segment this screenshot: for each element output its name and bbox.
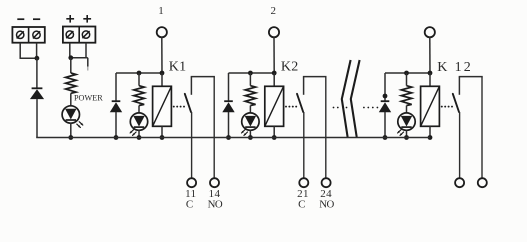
svg-text:NO: NO — [208, 198, 223, 210]
wire — [213, 77, 215, 179]
contact armature K1 — [185, 94, 191, 112]
junction — [428, 71, 433, 76]
junction — [428, 135, 433, 140]
wire — [249, 73, 251, 86]
wire — [138, 130, 140, 137]
junction — [137, 135, 142, 140]
wire — [384, 112, 386, 138]
wire — [69, 57, 88, 59]
dotted continuation line — [333, 107, 379, 109]
wire — [273, 73, 275, 86]
terminal NO K1 — [210, 178, 219, 187]
wire (stub) — [87, 58, 89, 71]
resistor R-K1 — [134, 86, 144, 106]
label pin 21 — [297, 188, 309, 200]
wire — [20, 57, 37, 59]
terminal NO K2 — [322, 178, 331, 187]
terminal C K2 — [299, 178, 308, 187]
wire — [429, 37, 431, 73]
input terminal K2 — [269, 27, 279, 37]
input terminal K1 — [157, 27, 167, 37]
wire — [191, 76, 215, 78]
svg-text:C: C — [186, 198, 193, 210]
diode D-K1 — [110, 101, 122, 112]
terminal NO K12 — [478, 178, 487, 187]
wire — [429, 126, 431, 137]
terminal block J1 (- -) — [12, 27, 44, 43]
terminal C K1 — [187, 178, 196, 187]
wire — [36, 43, 38, 59]
label pin 14 — [209, 188, 221, 200]
junction — [68, 55, 73, 60]
svg-text:K 12: K 12 — [437, 60, 473, 75]
input terminal K12 — [425, 27, 435, 37]
wire — [161, 73, 163, 86]
wire — [191, 112, 193, 178]
wire — [249, 106, 251, 114]
label K2 — [281, 59, 299, 74]
junction — [404, 135, 409, 140]
terminal block J2 (+ +) — [63, 27, 96, 43]
wire — [459, 112, 461, 178]
junction — [160, 71, 165, 76]
resistor R-K12 — [401, 86, 411, 106]
label input 1 — [158, 5, 164, 17]
wire — [138, 106, 140, 114]
wire — [273, 126, 275, 137]
node K12 rail wire — [385, 72, 430, 74]
mechanical link K12 (dotted) — [441, 106, 453, 108]
resistor R13 — [66, 73, 76, 93]
label C — [298, 198, 305, 210]
contact armature K12 — [453, 94, 459, 112]
wire — [228, 73, 230, 101]
junction — [272, 71, 277, 76]
junction — [248, 71, 253, 76]
wire — [325, 77, 327, 179]
wire — [406, 106, 408, 114]
junction — [137, 71, 142, 76]
wire — [36, 99, 38, 137]
wire (NO fixed contact) — [190, 77, 192, 95]
label pin 24 — [320, 188, 332, 200]
wire — [70, 93, 72, 106]
wire — [228, 112, 230, 138]
svg-text:K2: K2 — [281, 59, 299, 74]
wire (NO fixed contact) — [303, 77, 305, 95]
wire — [303, 76, 327, 78]
relay coil K1 — [153, 86, 172, 126]
bus wire (common) — [36, 137, 430, 139]
svg-text:C: C — [298, 198, 305, 210]
label K12 — [437, 60, 473, 75]
LED-K1 — [130, 113, 148, 135]
junction — [226, 135, 231, 140]
junction — [114, 135, 119, 140]
node K2 rail wire — [229, 72, 275, 74]
node K1 rail wire — [116, 72, 162, 74]
mechanical link K1 (dotted) — [173, 106, 185, 108]
wire — [115, 112, 117, 138]
svg-text:2: 2 — [270, 5, 276, 17]
svg-text:POWER: POWER — [74, 93, 103, 102]
diode D-K12 — [379, 101, 391, 112]
svg-text:K1: K1 — [169, 59, 187, 74]
label NO — [319, 198, 334, 210]
break mark (continuation) — [342, 60, 360, 137]
wire — [406, 73, 408, 86]
wire — [115, 73, 117, 101]
mechanical link K2 (dotted) — [285, 106, 297, 108]
wire — [36, 58, 38, 88]
relay coil K12 — [421, 86, 440, 126]
wire — [384, 73, 386, 101]
wire — [303, 112, 305, 178]
wire — [406, 130, 408, 137]
label pin 11 — [185, 188, 196, 200]
wire — [459, 76, 483, 78]
LED-K2 — [242, 113, 260, 135]
wire — [481, 77, 483, 179]
label input 2 — [270, 5, 276, 17]
label NO — [208, 198, 223, 210]
wire — [138, 73, 140, 86]
terminal C K12 — [455, 178, 464, 187]
LED PWR — [62, 106, 83, 128]
contact armature K2 — [297, 94, 303, 112]
junction — [35, 56, 40, 61]
junction — [383, 135, 388, 140]
diode D-K2 — [222, 101, 234, 112]
wire — [69, 43, 71, 58]
wire — [70, 123, 72, 137]
diode D1 — [30, 88, 44, 99]
label K1 — [169, 59, 187, 74]
label C — [186, 198, 193, 210]
wire — [161, 126, 163, 137]
wire — [249, 130, 251, 137]
wire — [273, 37, 275, 73]
wire — [70, 58, 72, 73]
junction — [404, 71, 409, 76]
label "POWER" — [74, 93, 103, 102]
svg-text:NO: NO — [319, 198, 334, 210]
LED-K12 — [398, 113, 416, 135]
svg-text:1: 1 — [158, 5, 164, 17]
relay coil K2 — [265, 86, 284, 126]
junction — [160, 135, 165, 140]
junction — [272, 135, 277, 140]
wire — [161, 37, 163, 73]
label "-" polarity marks — [17, 18, 40, 20]
wire — [429, 73, 431, 86]
junction — [248, 135, 253, 140]
junction — [68, 135, 73, 140]
wire (NO fixed contact) — [458, 77, 460, 95]
wire — [85, 43, 87, 58]
resistor R-K2 — [245, 86, 255, 106]
wire — [19, 43, 21, 59]
junction — [383, 94, 388, 99]
label "+" polarity marks — [66, 15, 91, 23]
